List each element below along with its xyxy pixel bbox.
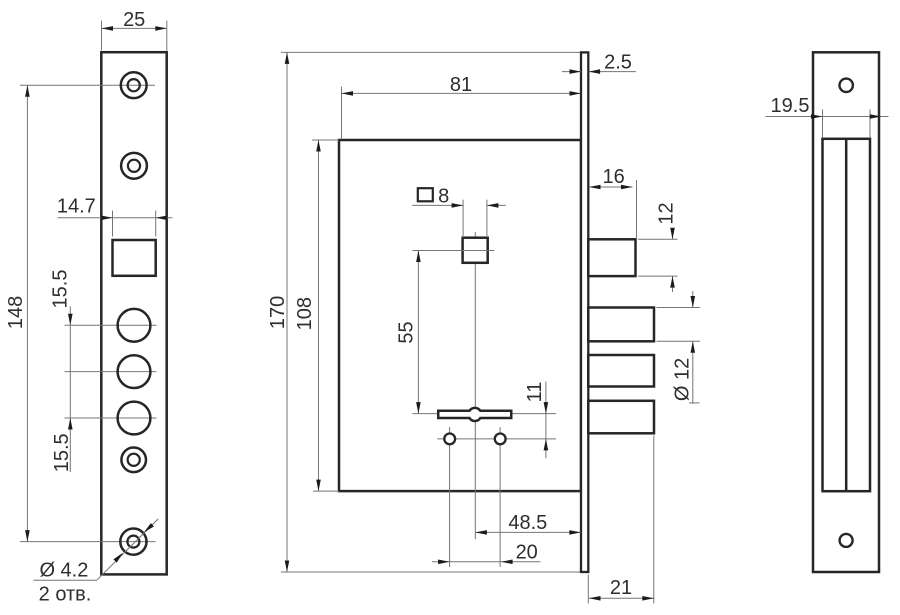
- svg-text:25: 25: [123, 9, 145, 31]
- bolt hole 3: [118, 402, 151, 435]
- deadbolt flat top: [588, 239, 635, 276]
- dimension diameter 12: [657, 307, 701, 309]
- extension line top: [281, 51, 581, 53]
- svg-text:55: 55: [396, 321, 418, 343]
- strike screw hole bottom: [840, 534, 853, 547]
- dimension 20: [432, 561, 541, 563]
- bottom screw hole: [120, 529, 146, 555]
- extension 108 top: [312, 139, 339, 141]
- latch square cutout: [113, 240, 156, 276]
- svg-text:2.5: 2.5: [604, 51, 632, 73]
- dimension 21: [587, 575, 589, 604]
- screw holes centerline: [437, 438, 556, 440]
- dimension 16: [589, 186, 633, 188]
- round bolt 3: [588, 401, 654, 434]
- pocket divider: [845, 139, 848, 491]
- dimension 8: [462, 200, 464, 236]
- svg-text:48.5: 48.5: [508, 512, 547, 534]
- keyhole slot: [438, 408, 511, 421]
- dimension 55: [417, 251, 419, 414]
- dimension 15.5 lower: [68, 418, 73, 430]
- leader diameter 4.2: [97, 519, 158, 580]
- square nut hole: [463, 238, 488, 263]
- svg-text:Ø 4.2: Ø 4.2: [39, 560, 88, 582]
- svg-text:108: 108: [294, 297, 316, 330]
- dimension 25: [101, 21, 103, 51]
- dimension 108: [318, 140, 320, 491]
- round bolt 1: [588, 308, 654, 342]
- dimension 19.5: [822, 110, 824, 139]
- screw hole top: [121, 72, 147, 98]
- dimension 14.7: [58, 217, 173, 219]
- bolt hole 2: [118, 355, 151, 388]
- faceplate strip: [581, 52, 588, 572]
- svg-text:19.5: 19.5: [771, 95, 810, 117]
- square hole centerline: [412, 250, 494, 252]
- svg-text:12: 12: [656, 202, 678, 224]
- small hole below bolts: [121, 448, 146, 473]
- svg-text:15.5: 15.5: [51, 433, 73, 472]
- bolt hole 1: [118, 309, 151, 342]
- svg-text:148: 148: [5, 296, 27, 329]
- svg-text:14.7: 14.7: [57, 195, 96, 217]
- extension 108 bottom: [313, 490, 339, 492]
- svg-text:Ø 12: Ø 12: [672, 358, 694, 401]
- svg-text:11: 11: [524, 382, 546, 403]
- round bolt 2: [588, 355, 654, 387]
- centerline bolt hole 2: [65, 371, 157, 373]
- lock body outline: [339, 140, 581, 491]
- extension line bottom: [281, 571, 581, 573]
- square symbol label: [418, 188, 433, 201]
- screw hole left: [444, 434, 455, 445]
- strike inner pocket: [823, 139, 871, 491]
- dimension 15.5 upper: [69, 307, 71, 473]
- svg-text:16: 16: [602, 166, 624, 188]
- screw hole second: [121, 153, 147, 179]
- svg-text:15.5: 15.5: [50, 270, 72, 309]
- dimension 2.5: [562, 71, 581, 73]
- dimension 81: [341, 87, 343, 139]
- centerline screw hole top: [20, 84, 155, 86]
- svg-text:21: 21: [610, 577, 632, 599]
- dimension 148: [26, 85, 28, 541]
- strike outline: [813, 52, 879, 572]
- strike screw hole top: [840, 79, 853, 92]
- faceplate outline: [101, 52, 166, 574]
- svg-text:20: 20: [516, 541, 538, 563]
- dimension 11: [545, 382, 547, 459]
- svg-text:2 отв.: 2 отв.: [39, 584, 92, 606]
- svg-text:170: 170: [267, 296, 289, 329]
- svg-text:81: 81: [450, 74, 472, 96]
- keyhole centerline horizontal: [412, 413, 556, 415]
- centerline bolt hole 1: [65, 324, 157, 326]
- dimension 170: [286, 52, 288, 572]
- dimension 12: [638, 238, 678, 240]
- svg-text:8: 8: [438, 185, 449, 207]
- screw hole right vertical line: [499, 427, 501, 567]
- vertical centerline: [474, 232, 476, 539]
- screw hole right: [495, 434, 506, 445]
- dimension 48.5: [475, 531, 580, 533]
- centerline bolt hole 3: [65, 417, 157, 419]
- screw hole left vertical line: [449, 427, 451, 567]
- centerline bottom screw hole: [20, 541, 156, 543]
